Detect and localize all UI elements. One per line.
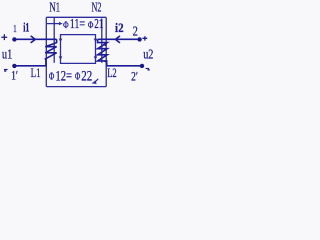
svg-text:2′: 2′ [131,69,138,83]
svg-text:Φ: Φ [88,20,94,30]
svg-text:Φ: Φ [63,20,69,30]
svg-text:1: 1 [13,23,17,35]
svg-text:u1: u1 [2,47,13,62]
svg-text:2: 2 [133,23,138,38]
svg-text:N2: N2 [92,1,102,16]
svg-text:12=: 12= [55,68,72,84]
svg-text:L2: L2 [107,65,117,80]
svg-text:Φ: Φ [49,72,55,83]
svg-text:Φ: Φ [75,72,81,83]
svg-text:1′: 1′ [11,69,18,83]
svg-text:i2: i2 [115,20,124,35]
svg-text:u2: u2 [143,46,153,61]
svg-text:21: 21 [94,17,103,32]
svg-text:i1: i1 [23,20,29,35]
svg-text:11=: 11= [70,17,85,32]
svg-text:22: 22 [81,68,92,84]
svg-text:L1: L1 [31,65,41,80]
svg-text:N1: N1 [49,1,60,16]
